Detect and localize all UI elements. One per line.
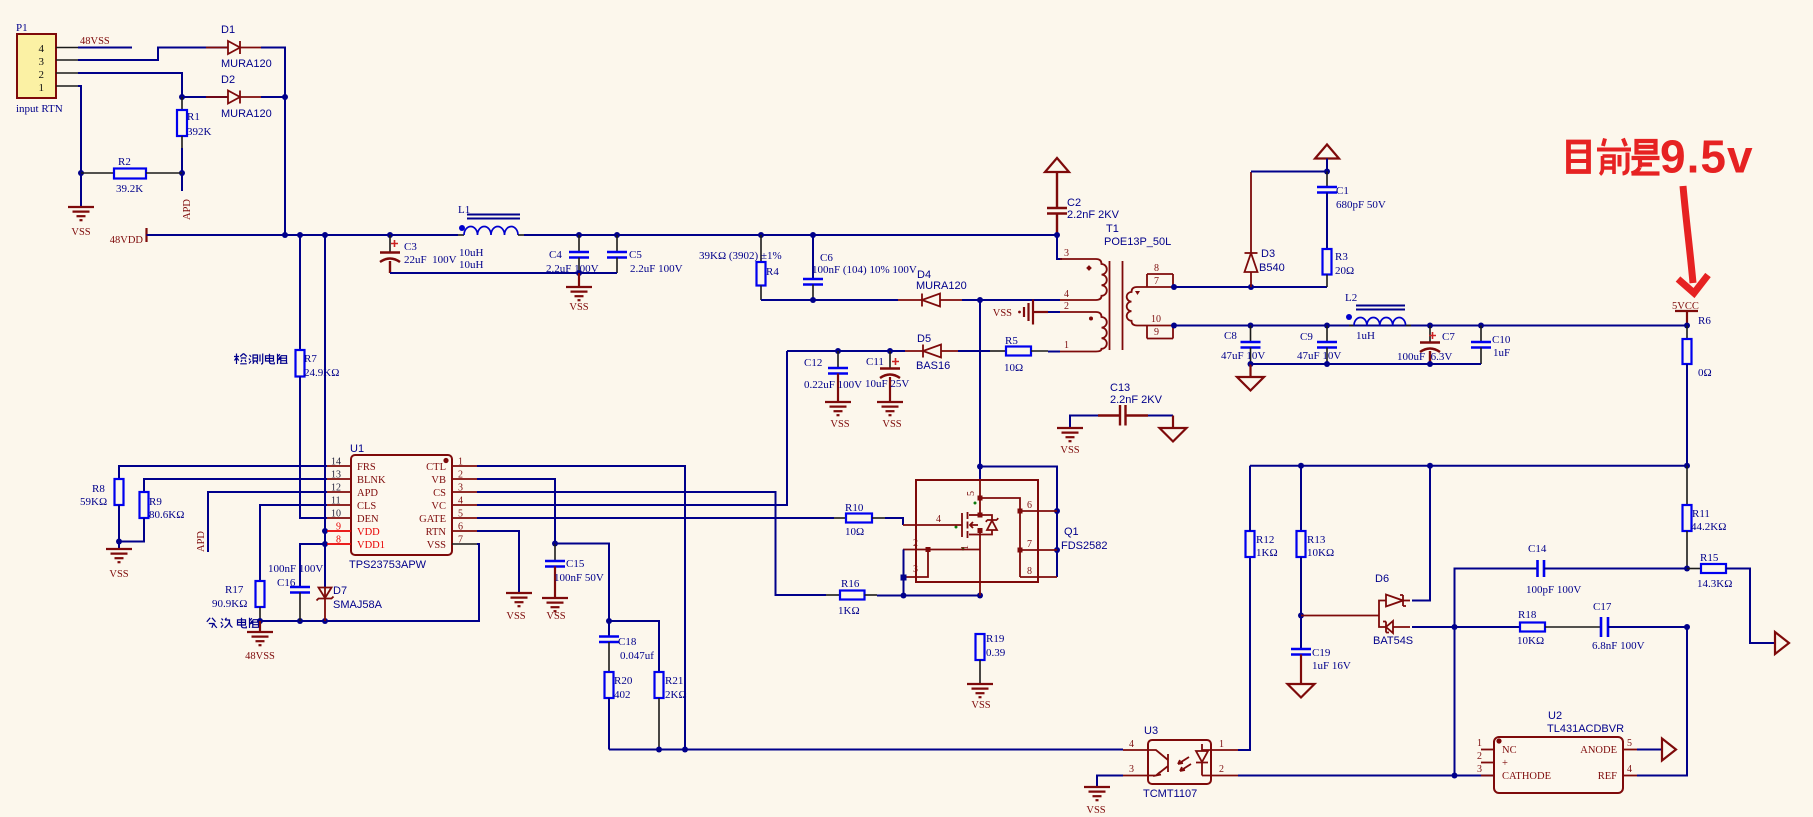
svg-text:VSS: VSS [71, 227, 90, 238]
resistor R3 20 [1323, 249, 1355, 287]
svg-text:1: 1 [1219, 739, 1224, 750]
svg-text:R21: R21 [665, 675, 683, 687]
wire CS route [477, 492, 826, 595]
svg-text:2: 2 [1064, 301, 1069, 312]
resistor R20 402 [605, 672, 633, 750]
svg-text:0.047uf: 0.047uf [620, 650, 654, 662]
svg-text:C5: C5 [629, 249, 642, 261]
resistor R21 2K [655, 672, 687, 750]
Q1 internal drain bus to pins 6/7/8 [980, 498, 1020, 577]
svg-text:+: + [1502, 758, 1508, 769]
svg-text:DEN: DEN [357, 514, 379, 525]
resistor R11 44.2K [1683, 466, 1727, 569]
U3 phototransistor [1148, 750, 1168, 776]
svg-text:SMAJ58A: SMAJ58A [333, 599, 383, 611]
svg-text:10: 10 [331, 509, 341, 520]
wire D4 to T1 pin4 [962, 299, 1060, 301]
svg-text:1: 1 [39, 82, 45, 94]
wire Q1 pins 2/3 to R16 node [903, 550, 905, 596]
wire rail to R7 [299, 235, 301, 350]
resistor R9 80.6K [119, 492, 184, 542]
svg-text:2.2nF 2KV: 2.2nF 2KV [1067, 209, 1120, 221]
svg-text:24.9KΩ: 24.9KΩ [304, 367, 339, 379]
svg-text:REF: REF [1598, 771, 1617, 782]
svg-text:R2: R2 [118, 156, 131, 168]
svg-text:47uF 10V: 47uF 10V [1297, 350, 1341, 362]
capacitor C11 10uF 25V [865, 348, 909, 430]
wire CTL riser [477, 466, 685, 750]
resistor R17 90.9K grading [212, 581, 265, 621]
T1 secondary winding [1127, 287, 1137, 326]
svg-text:C10: C10 [1492, 334, 1511, 346]
svg-text:VSS: VSS [993, 308, 1012, 319]
svg-text:VSS: VSS [1086, 805, 1105, 816]
T1 pin 1 [1060, 351, 1096, 353]
svg-text:D6: D6 [1375, 573, 1389, 585]
capacitor C19 1uF 16V [1288, 647, 1351, 698]
inductor L1 10uH [458, 204, 524, 271]
svg-text:VSS: VSS [506, 611, 525, 622]
svg-text:1KΩ: 1KΩ [838, 605, 860, 617]
svg-text:C7: C7 [1442, 331, 1455, 343]
T1 pin 2 [1060, 311, 1096, 313]
svg-text:R18: R18 [1518, 609, 1537, 621]
ground VSS under C4 [578, 273, 580, 287]
svg-text:48VSS: 48VSS [80, 36, 110, 47]
resistor R10 10 [834, 502, 885, 538]
diode D1 MURA120 [206, 24, 272, 70]
svg-text:100nF 100V: 100nF 100V [268, 563, 323, 575]
resistor R19 0.39 [976, 633, 1006, 684]
resistor R8 59K [80, 479, 124, 549]
svg-text:C12: C12 [804, 357, 822, 369]
wire secondary 8/7 to D3 [1173, 286, 1327, 288]
svg-text:11: 11 [331, 496, 341, 507]
svg-text:3: 3 [458, 483, 463, 494]
svg-text:48VDD: 48VDD [110, 235, 144, 246]
svg-text:2: 2 [913, 538, 918, 549]
red annotation text 目前是9.5v [1569, 139, 1660, 175]
svg-text:L2: L2 [1345, 292, 1357, 304]
wire VC riser [477, 351, 787, 505]
svg-text:C2: C2 [1067, 197, 1081, 209]
wire D6 bottom node [1412, 626, 1520, 628]
svg-text:VSS: VSS [971, 700, 990, 711]
capacitor C3 22uF 100V [380, 235, 457, 273]
svg-text:2: 2 [1477, 751, 1482, 762]
wire CLS to R17 [260, 505, 327, 581]
svg-text:4: 4 [936, 514, 941, 525]
svg-text:392K: 392K [187, 126, 212, 138]
power port 5VCC [1672, 301, 1699, 326]
resistor R4 39K [699, 232, 782, 300]
svg-text:C16: C16 [277, 577, 296, 589]
ground VSS under R8 [106, 549, 132, 562]
capacitor C10 1uF [1471, 323, 1511, 365]
svg-text:C14: C14 [1528, 543, 1547, 555]
resistor R7 24.9K detection [296, 350, 340, 518]
wire D2 cathode to vertical [261, 96, 285, 98]
svg-text:NC: NC [1502, 745, 1517, 756]
svg-text:TCMT1107: TCMT1107 [1143, 788, 1197, 800]
svg-text:input RTN: input RTN [16, 103, 63, 115]
capacitor C15 100nF 50V [542, 544, 604, 623]
capacitor C7 100uF 6.3V [1397, 323, 1455, 368]
svg-text:1: 1 [458, 457, 463, 468]
T1 primary winding A [1096, 259, 1107, 300]
U3 light arrows [1178, 757, 1191, 771]
svg-text:12: 12 [331, 483, 341, 494]
svg-text:R10: R10 [845, 502, 864, 514]
wire R5 to T1 pin1 [1048, 351, 1060, 353]
svg-text:D7: D7 [333, 585, 347, 597]
svg-text:100nF 50V: 100nF 50V [554, 572, 604, 584]
svg-text:9: 9 [336, 522, 341, 533]
svg-text:TL431ACDBVR: TL431ACDBVR [1547, 723, 1624, 735]
capacitor C5 2.2uF 100V [607, 232, 683, 275]
svg-text:47uF 10V: 47uF 10V [1221, 350, 1265, 362]
svg-text:APD: APD [182, 199, 193, 220]
wire VB riser [477, 479, 555, 544]
ground 48VSS [259, 621, 261, 632]
wire drain riser [979, 300, 981, 480]
junction R1/R2 [179, 170, 185, 176]
svg-text:VSS: VSS [830, 419, 849, 430]
svg-text:44.2KΩ: 44.2KΩ [1691, 521, 1726, 533]
anode port arrow [1662, 739, 1676, 761]
svg-text:C4: C4 [549, 249, 562, 261]
svg-text:VSS: VSS [546, 611, 565, 622]
svg-text:RTN: RTN [426, 527, 447, 538]
svg-text:13: 13 [331, 470, 341, 481]
svg-text:CATHODE: CATHODE [1502, 771, 1551, 782]
IC U1 TPS23753APW [327, 443, 477, 571]
svg-text:BAT54S: BAT54S [1373, 635, 1413, 647]
wire FRS to R8 [119, 466, 327, 479]
capacitor C6 100nF [803, 232, 917, 303]
svg-text:R1: R1 [187, 111, 200, 123]
svg-text:6.8nF 100V: 6.8nF 100V [1592, 640, 1645, 652]
svg-text:FDS2582: FDS2582 [1061, 540, 1107, 552]
wire pin1 down [78, 86, 81, 207]
svg-text:R16: R16 [841, 578, 860, 590]
svg-text:D5: D5 [917, 333, 931, 345]
resistor R2 39.2K [81, 156, 182, 195]
svg-text:1uF: 1uF [1493, 347, 1510, 359]
node junction at R1 top [179, 94, 185, 100]
wire D1 cathode to vertical [261, 48, 285, 236]
svg-text:R13: R13 [1307, 534, 1326, 546]
svg-text:B540: B540 [1259, 262, 1285, 274]
svg-text:C13: C13 [1110, 382, 1130, 394]
svg-text:VSS: VSS [427, 540, 446, 551]
svg-text:14: 14 [331, 457, 341, 468]
svg-text:VDD1: VDD1 [357, 540, 385, 551]
wire R16 to source node [877, 595, 980, 597]
svg-text:1KΩ: 1KΩ [1256, 547, 1278, 559]
wire U3 pin3 to ground [1097, 776, 1123, 788]
zener D7 SMAJ58A [317, 585, 383, 621]
svg-text:VSS: VSS [1060, 445, 1079, 456]
svg-text:CS: CS [433, 488, 446, 499]
svg-text:100pF 100V: 100pF 100V [1526, 584, 1581, 596]
svg-text:R5: R5 [1005, 335, 1018, 347]
svg-text:D3: D3 [1261, 248, 1275, 260]
svg-text:R9: R9 [149, 496, 162, 508]
svg-text:BLNK: BLNK [357, 475, 386, 486]
resistor R18 10K [1517, 609, 1601, 647]
wire C6 to D4 [813, 299, 898, 301]
U3 LED [1196, 744, 1211, 776]
svg-text:C17: C17 [1593, 601, 1612, 613]
svg-text:9: 9 [1154, 327, 1159, 338]
svg-text:VB: VB [431, 475, 446, 486]
svg-text:6: 6 [1027, 500, 1032, 511]
svg-text:5: 5 [458, 509, 463, 520]
diode D2 MURA120 [206, 74, 272, 120]
svg-text:C18: C18 [618, 636, 637, 648]
optocoupler U3 TCMT1107 [1123, 725, 1238, 800]
capacitor C2 2.2nF 2KV [1045, 158, 1120, 235]
Q1 gate pin 4 [903, 524, 962, 526]
svg-text:90.9KΩ: 90.9KΩ [212, 598, 247, 610]
svg-text:10Ω: 10Ω [1004, 362, 1023, 374]
svg-text:8: 8 [1027, 566, 1032, 577]
svg-text:VSS: VSS [882, 419, 901, 430]
svg-text:0.39: 0.39 [986, 647, 1006, 659]
wire RTN to ground [477, 531, 519, 593]
T1 pin 3 [1057, 235, 1062, 259]
svg-text:7: 7 [1154, 276, 1159, 287]
ground VSS at P1 [68, 207, 94, 220]
svg-text:1uH: 1uH [1356, 330, 1375, 342]
svg-text:R7: R7 [304, 353, 317, 365]
wire pin3 to D1 [78, 48, 228, 61]
svg-text:2: 2 [458, 470, 463, 481]
svg-text:R17: R17 [225, 584, 244, 596]
svg-text:C9: C9 [1300, 331, 1313, 343]
main 48V rail [147, 234, 459, 236]
svg-text:3: 3 [913, 564, 918, 575]
svg-text:10uF 25V: 10uF 25V [865, 378, 909, 390]
svg-text:U1: U1 [350, 443, 364, 455]
wire drain to pins 6/7/8 [980, 467, 1057, 578]
svg-text:39KΩ (3902) ±1%: 39KΩ (3902) ±1% [699, 250, 782, 262]
transformer T1 POE13P_50L [1057, 223, 1173, 352]
svg-text:CLS: CLS [357, 501, 376, 512]
resistor R15 14.3K [1687, 552, 1775, 643]
svg-text:10uH: 10uH [459, 247, 484, 259]
svg-text:GATE: GATE [419, 514, 446, 525]
resistor R13 10K [1297, 466, 1335, 649]
svg-text:10Ω: 10Ω [845, 526, 864, 538]
svg-text:R15: R15 [1700, 552, 1719, 564]
Q1 source pins 1/2/3 [979, 530, 981, 596]
svg-text:MURA120: MURA120 [916, 280, 967, 292]
svg-text:48VSS: 48VSS [245, 651, 275, 662]
wire pin2 down to node [78, 73, 182, 97]
svg-text:MURA120: MURA120 [221, 108, 272, 120]
svg-text:1uF 16V: 1uF 16V [1312, 660, 1351, 672]
wire C18 node to R21 [609, 621, 659, 672]
capacitor C1 680pF 50V [1317, 172, 1386, 250]
wire R1 bottom to APD stub [181, 148, 183, 191]
T1 core [1109, 261, 1111, 350]
label 检测电阻 [234, 354, 288, 365]
svg-text:3: 3 [39, 56, 45, 68]
capacitor C12 0.22uF 100V [804, 348, 862, 430]
svg-text:0.22uF 100V: 0.22uF 100V [804, 379, 862, 391]
svg-text:VSS: VSS [109, 569, 128, 580]
svg-text:9.5v: 9.5v [1660, 131, 1754, 183]
svg-text:ANODE: ANODE [1580, 745, 1617, 756]
transistor Q1 FDS2582 [903, 480, 1107, 596]
svg-text:10uH: 10uH [459, 259, 484, 271]
svg-text:2: 2 [1219, 764, 1224, 775]
svg-text:4: 4 [458, 496, 463, 507]
svg-text:T1: T1 [1106, 223, 1119, 235]
svg-text:R20: R20 [614, 675, 633, 687]
wire pin4 to 48VSS [78, 47, 132, 49]
wire rail to U1 VDD pins [324, 235, 326, 587]
wire R10 to Q1 gate [885, 518, 903, 525]
svg-text:C8: C8 [1224, 330, 1237, 342]
wire BLNK to R9 [144, 479, 327, 492]
resistor R1 392K [177, 97, 212, 148]
resistor R5 10 [990, 335, 1048, 374]
svg-text:1: 1 [960, 545, 971, 550]
diode D5 BAS16 [905, 333, 958, 372]
svg-text:2: 2 [39, 69, 45, 81]
bottom rail C3-C5 [390, 272, 617, 274]
wire bias row to D5 [787, 350, 905, 352]
svg-text:10KΩ: 10KΩ [1517, 635, 1544, 647]
IC U2 TL431ACDBVR [1477, 710, 1637, 793]
svg-text:3: 3 [1064, 248, 1069, 259]
T1 pins 10/9 loop [1137, 325, 1173, 327]
svg-text:3: 3 [1477, 764, 1482, 775]
wire APD pin12 [208, 492, 327, 552]
svg-text:C1: C1 [1336, 185, 1349, 197]
U1 right pins [452, 465, 477, 467]
wire secondary 10/9 output rail [1173, 325, 1687, 327]
capacitor C9 47uF 10V [1297, 323, 1341, 368]
svg-text:CTL: CTL [426, 462, 446, 473]
svg-text:6: 6 [458, 522, 463, 533]
wire ANODE to port [1637, 749, 1662, 751]
svg-text:8: 8 [1154, 263, 1159, 274]
svg-text:TPS23753APW: TPS23753APW [349, 559, 427, 571]
diode D3 B540 [1245, 172, 1285, 290]
connector P1 [16, 22, 78, 115]
svg-text:C15: C15 [566, 558, 585, 570]
junction R2 left [78, 170, 84, 176]
svg-text:402: 402 [614, 689, 631, 701]
svg-text:1: 1 [1477, 738, 1482, 749]
T1 pin 4 [1060, 299, 1096, 301]
svg-text:20Ω: 20Ω [1335, 265, 1354, 277]
capacitor C18 0.047uf [599, 636, 654, 672]
wire VB node to C18/R21 [555, 544, 609, 637]
svg-text:4: 4 [1064, 289, 1069, 300]
output port arrow right [1775, 632, 1789, 654]
capacitor C14 100pF 100V [1455, 543, 1688, 627]
power port VSS bar at T1 pin2 [993, 300, 1060, 325]
svg-text:3: 3 [1129, 764, 1134, 775]
wire R4 to C6 node [761, 299, 813, 301]
junction D1/D2 [282, 94, 288, 100]
svg-text:D1: D1 [221, 24, 235, 36]
svg-text:R6: R6 [1698, 315, 1711, 327]
wire D6 top to rail [1412, 466, 1430, 601]
svg-text:APD: APD [196, 531, 207, 552]
T1 primary winding B [1096, 312, 1107, 352]
svg-text:Q1: Q1 [1064, 526, 1079, 538]
svg-text:4: 4 [1627, 764, 1632, 775]
ground tri under C8 [1249, 364, 1251, 377]
svg-text:100nF (104) 10% 100V: 100nF (104) 10% 100V [812, 264, 917, 276]
junction drain node [977, 297, 983, 303]
svg-text:2.2nF 2KV: 2.2nF 2KV [1110, 394, 1163, 406]
svg-text:0Ω: 0Ω [1698, 367, 1712, 379]
wire node to U3 pin2 [1454, 627, 1456, 776]
svg-text:P1: P1 [16, 22, 28, 34]
svg-text:1: 1 [1064, 340, 1069, 351]
svg-text:D2: D2 [221, 74, 235, 86]
svg-text:C11: C11 [866, 356, 884, 368]
red annotation arrow [1678, 186, 1708, 293]
Q1 drain pin 5 [979, 480, 981, 515]
svg-text:10: 10 [1151, 314, 1161, 325]
resistor R6 0 [1683, 315, 1712, 466]
resistor R12 1K [1246, 466, 1278, 559]
svg-text:VC: VC [431, 501, 446, 512]
output bottom rail [1251, 363, 1482, 365]
svg-text:7: 7 [1027, 539, 1032, 550]
svg-text:22uF 100V: 22uF 100V [404, 254, 457, 266]
label 分级电阻 [207, 618, 260, 628]
wire D5 to R5 [958, 350, 990, 352]
svg-text:10KΩ: 10KΩ [1307, 547, 1334, 559]
svg-text:R12: R12 [1256, 534, 1274, 546]
svg-text:R11: R11 [1692, 508, 1710, 520]
inductor L2 1uH [1345, 292, 1411, 342]
svg-text:BAS16: BAS16 [916, 360, 950, 372]
svg-text:39.2K: 39.2K [116, 183, 143, 195]
svg-text:2.2uF 100V: 2.2uF 100V [630, 263, 683, 275]
svg-text:5: 5 [1627, 738, 1632, 749]
svg-text:APD: APD [357, 488, 378, 499]
wire node to D2 [182, 96, 228, 98]
capacitor C16 100nF 100V [268, 544, 325, 621]
svg-text:14.3KΩ: 14.3KΩ [1697, 578, 1732, 590]
svg-text:100uF 6.3V: 100uF 6.3V [1397, 351, 1452, 363]
ground VSS left of C13 [1057, 428, 1083, 441]
diode D4 MURA120 [898, 269, 967, 307]
bottom feedback rail [609, 749, 1123, 751]
ground tri right of C13 [1160, 428, 1187, 442]
feedback top rail [1250, 465, 1687, 467]
svg-text:4: 4 [1129, 739, 1134, 750]
svg-text:680pF 50V: 680pF 50V [1336, 199, 1386, 211]
capacitor C8 47uF 10V [1221, 323, 1265, 368]
svg-text:8: 8 [336, 535, 341, 546]
capacitor C17 6.8nF 100V [1592, 601, 1687, 652]
wire D3 top to C1 node [1251, 171, 1327, 173]
Q1 MOSFET glyph [961, 513, 963, 537]
capacitor C13 2.2nF 2KV [1070, 382, 1173, 428]
power arrow above C1 [1315, 145, 1339, 159]
